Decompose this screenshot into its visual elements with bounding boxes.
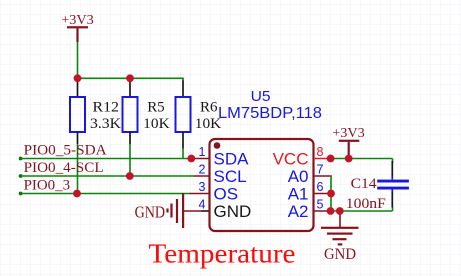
resistor R12 — [70, 78, 121, 144]
svg-text:LM75BDP,118: LM75BDP,118 — [218, 105, 322, 122]
svg-text:6: 6 — [317, 180, 324, 194]
svg-text:GND: GND — [324, 246, 356, 263]
svg-text:PIO0_3: PIO0_3 — [24, 177, 71, 193]
svg-text:+3V3: +3V3 — [61, 13, 94, 28]
svg-text:Temperature: Temperature — [149, 238, 296, 268]
junction SDA at pin 1 — [187, 155, 195, 163]
resistor R6 — [176, 81, 222, 149]
junction A1 stub — [327, 190, 335, 198]
svg-text:3.3K: 3.3K — [90, 116, 121, 132]
pin 3 stub — [190, 193, 210, 195]
capacitor C14 100nF — [346, 161, 409, 212]
svg-text:R12: R12 — [93, 100, 120, 116]
svg-text:5: 5 — [317, 198, 324, 212]
svg-text:100nF: 100nF — [346, 196, 386, 212]
svg-text:1: 1 — [199, 145, 206, 159]
wire R12 lead down to PIO0_3 net — [77, 144, 79, 194]
wire +3V3 to top rail — [77, 42, 79, 78]
wire R6 lead down to SDA net — [182, 149, 184, 159]
svg-text:7: 7 — [317, 163, 324, 177]
pin 5 stub — [314, 210, 332, 212]
wire top rail — [77, 77, 184, 79]
svg-text:A2: A2 — [288, 202, 309, 221]
wire SDA — [19, 157, 23, 161]
pin 2 stub — [193, 175, 209, 177]
svg-text:GND: GND — [214, 202, 252, 221]
power +3V3 (right) — [332, 126, 365, 159]
svg-text:PIO0_4-SCL: PIO0_4-SCL — [24, 160, 104, 176]
svg-text:U5: U5 — [251, 89, 271, 105]
junction VCC rail at pin 8 — [327, 155, 335, 163]
svg-text:VCC: VCC — [273, 150, 309, 169]
ground GND (right) — [321, 227, 359, 263]
pin 1 stub — [191, 158, 210, 160]
junction VCC rail at +3V3 — [345, 155, 353, 163]
wire VCC rail corner down — [392, 159, 394, 164]
svg-text:10K: 10K — [143, 116, 170, 132]
wire bottom rail corner up — [392, 207, 394, 212]
wire bottom rail — [331, 210, 393, 212]
wire R5 lead down to SCL net — [129, 144, 131, 176]
junction bottom rail at pin 5 — [327, 207, 335, 215]
wire SCL — [19, 174, 23, 178]
wire PIO0_3 — [19, 192, 23, 196]
power +3V3 (left) — [61, 13, 94, 42]
wire VCC rail — [331, 158, 393, 160]
svg-text:3: 3 — [199, 180, 206, 194]
svg-text:A1: A1 — [288, 185, 309, 204]
junction SCL at R5 — [126, 172, 134, 180]
junction bottom rail at GND tap — [336, 207, 344, 215]
svg-text:+3V3: +3V3 — [332, 126, 365, 141]
wire A0/A1/A2 vertical — [330, 176, 332, 211]
wire top rail corner down to R6 — [182, 78, 184, 81]
svg-text:R6: R6 — [200, 100, 218, 116]
svg-text:8: 8 — [317, 145, 324, 159]
junction PIO0_3 at R12 — [73, 190, 81, 198]
svg-text:2: 2 — [199, 163, 206, 177]
svg-text:C14: C14 — [351, 176, 378, 192]
junction top rail at R12 — [74, 74, 82, 82]
pin 6 stub — [314, 193, 332, 195]
IC U5 LM75BDP,118 temperature sensor — [210, 89, 323, 231]
svg-text:A0: A0 — [288, 167, 309, 186]
svg-text:GND: GND — [135, 202, 166, 221]
svg-text:SDA: SDA — [214, 150, 250, 169]
resistor R5 — [123, 78, 170, 144]
svg-text:SCL: SCL — [214, 167, 247, 186]
svg-text:OS: OS — [214, 185, 239, 204]
pin 8 stub (VCC) — [314, 158, 331, 160]
pin 7 stub — [314, 175, 332, 177]
svg-text:R5: R5 — [147, 100, 165, 116]
wire pin4 GND — [184, 210, 201, 212]
wire GND tap — [339, 211, 341, 227]
svg-text:4: 4 — [199, 198, 206, 212]
ground GND (left, rotated bar symbol) — [135, 193, 185, 228]
svg-text:PIO0_5-SDA: PIO0_5-SDA — [24, 142, 107, 158]
junction top rail at R5 — [126, 74, 134, 82]
